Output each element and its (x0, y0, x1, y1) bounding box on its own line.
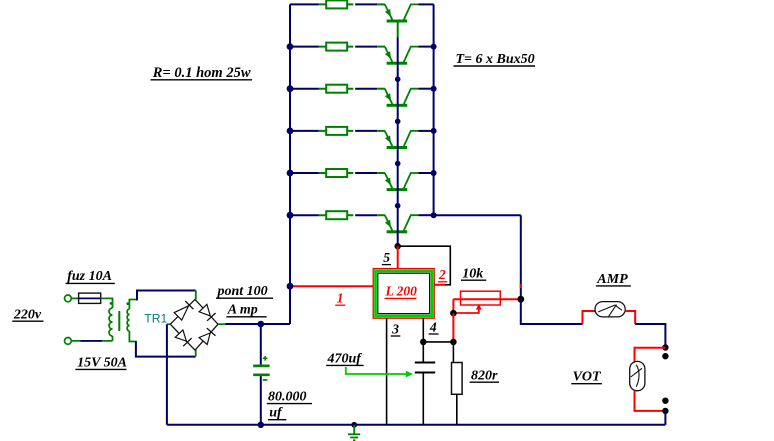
wire tap to cap C1 (260, 324, 262, 365)
wire pot to pin4 node (452, 313, 454, 342)
node output post minus B (662, 408, 668, 414)
bridge rectifier frame (170, 299, 218, 350)
resistor R2 (290, 43, 377, 51)
resistor 820r (452, 342, 463, 425)
ground rail wire (167, 424, 666, 426)
node output post minus A (662, 398, 668, 404)
junction dots right rail (431, 44, 437, 219)
transformer TR1 phase dots (110, 302, 113, 305)
transformer TR1 primary winding (109, 308, 112, 336)
svg-text:R= 0.1 hom 25w: R= 0.1 hom 25w (152, 65, 251, 81)
wire pin1 (290, 285, 373, 287)
node pin5 junction (395, 243, 401, 249)
wire right rail (433, 4, 435, 215)
wire voltmeter top lead (635, 348, 666, 362)
wire terminal to fuse (71, 297, 78, 299)
node 820r top junction (450, 339, 457, 346)
node output post plus B (662, 353, 668, 359)
svg-text:5: 5 (383, 250, 390, 265)
svg-text:15V 50A: 15V 50A (77, 355, 127, 370)
wire cap C1 to ground rail (260, 376, 262, 425)
resistor R1 (290, 0, 377, 8)
svg-text:AMP: AMP (596, 272, 628, 287)
terminal input top (65, 295, 72, 302)
wire pin2 stub (434, 284, 445, 286)
diode D1 top-left (174, 301, 193, 320)
node pin4 junction (420, 339, 427, 346)
diode D4 bottom-right (199, 328, 215, 344)
wire output post to ground rail (664, 411, 666, 425)
svg-text:fuz 10A: fuz 10A (67, 269, 112, 284)
wire pin3 to ground rail (386, 318, 388, 424)
diode D2 top-right (199, 304, 216, 320)
fuse F1 fuz 10A (78, 293, 101, 303)
wire node to L200 region (520, 215, 522, 299)
junction dots base column (395, 76, 401, 208)
svg-text:uf: uf (269, 406, 283, 421)
wire left rail (289, 4, 291, 324)
wire fuse to primary (101, 298, 113, 308)
svg-text:10k: 10k (462, 266, 483, 281)
transistor Q3 (377, 89, 433, 107)
node pin1 on rail (287, 283, 294, 290)
wire ammeter left lead (583, 311, 596, 324)
wire secondary top to bridge (129, 291, 195, 310)
wire voltmeter bottom lead (635, 391, 666, 411)
ground symbol (348, 422, 360, 440)
wire pin5 (397, 246, 399, 268)
transistor Q5 (377, 173, 433, 191)
wire bridge right to rail (218, 323, 290, 325)
svg-text:A mp: A mp (227, 302, 258, 317)
node filter cap tap (258, 321, 265, 328)
capacitor C2 470uf (415, 342, 435, 425)
svg-text:2: 2 (438, 267, 446, 282)
node output post plus A (662, 344, 668, 350)
transistor Q2 (377, 47, 433, 65)
svg-text:3: 3 (391, 321, 399, 336)
wire pot node to ammeter (521, 299, 583, 324)
svg-text:T= 6 x Bux50: T= 6 x Bux50 (456, 52, 535, 67)
potentiometer 10k (453, 291, 520, 313)
svg-text:1: 1 (337, 291, 344, 306)
wire ammeter right lead (625, 311, 636, 324)
svg-text:L 200: L 200 (385, 283, 418, 298)
resistor R3 (290, 85, 377, 93)
svg-text:VOT: VOT (573, 370, 602, 385)
wire secondary bottom to bridge (129, 331, 195, 357)
wire bottom terminal to primary (71, 336, 112, 341)
node cap C1 on rail (258, 422, 264, 428)
diode D3 bottom-left (175, 330, 191, 346)
svg-text:470uf: 470uf (327, 351, 363, 366)
svg-text:TR1: TR1 (144, 312, 167, 326)
ammeter M1 (595, 302, 625, 317)
svg-text:80.000: 80.000 (268, 390, 307, 405)
transistor Q4 (377, 131, 433, 149)
node pot left junction (450, 310, 457, 317)
capacitor C1 80000uf (253, 356, 269, 380)
wire bridge left to ground rail (167, 324, 170, 425)
svg-text:820r: 820r (471, 368, 498, 383)
transformer TR1 secondary winding (127, 309, 129, 331)
wire base column (397, 37, 399, 246)
junction dots left rail (287, 43, 294, 218)
wire pin4 (422, 318, 424, 342)
svg-text:pont 100: pont 100 (217, 284, 268, 299)
wire row6 to right column (434, 214, 521, 216)
transistor Q1 (377, 4, 433, 37)
voltmeter M2 (630, 361, 645, 390)
node pot right junction (517, 296, 524, 303)
transformer TR1 core (118, 311, 120, 331)
svg-text:220v: 220v (13, 307, 42, 322)
resistor R4 (290, 127, 377, 135)
resistor R5 (290, 169, 377, 177)
svg-text:4: 4 (429, 319, 437, 334)
wire pin4 node to pot node (423, 341, 453, 343)
arrow 470uf pointer (346, 367, 413, 377)
transistor Q6 (377, 215, 433, 233)
wire pin2 feedback loop (398, 246, 451, 285)
resistor R6 (290, 211, 377, 219)
op-amp U1 L200 regulator body (373, 269, 434, 319)
terminal input bottom (65, 338, 72, 345)
wire ammeter to output post (635, 324, 665, 348)
